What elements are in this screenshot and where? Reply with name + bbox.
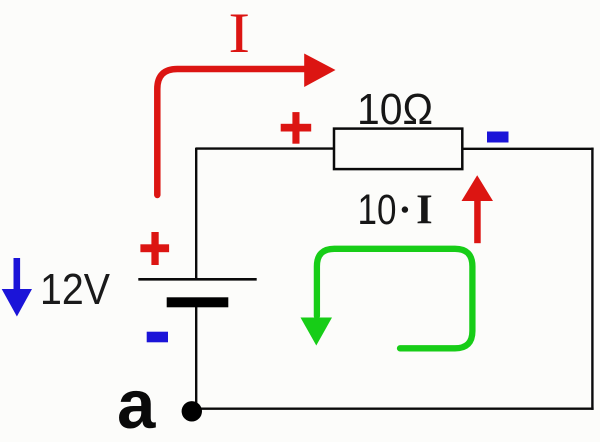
current arrow I (red, from battery over the top) xyxy=(157,54,335,196)
svg-text:10: 10 xyxy=(358,186,397,234)
svg-text:12V: 12V xyxy=(40,266,110,314)
multiplication dot in 10·I xyxy=(402,206,408,212)
battery + polarity mark (red plus) xyxy=(140,232,169,265)
svg-text:10Ω: 10Ω xyxy=(357,85,433,134)
resistor - polarity mark (blue minus) xyxy=(487,132,509,143)
resistor + polarity mark (red plus) xyxy=(281,112,312,144)
blue battery voltage direction arrow (down) xyxy=(2,258,32,317)
wire battery bottom lead xyxy=(195,307,197,411)
wire right side xyxy=(591,148,593,410)
svg-text:a: a xyxy=(117,366,156,442)
battery V1 negative plate (short thick) xyxy=(167,297,229,307)
wire bottom xyxy=(192,408,594,410)
resistor R1 body xyxy=(334,129,462,170)
wire top-left segment (battery + to resistor) xyxy=(196,147,335,149)
wire top-right segment (resistor to right corner) xyxy=(461,148,594,150)
battery - polarity mark (blue minus) xyxy=(147,332,168,343)
resistor voltage arrow (red, up) xyxy=(462,175,494,243)
node a junction dot xyxy=(182,401,202,421)
KVL loop arrowhead (green, down) xyxy=(301,318,333,346)
svg-text:I: I xyxy=(416,187,433,234)
wire battery top lead xyxy=(195,148,197,279)
battery V1 positive plate (long thin) xyxy=(138,278,256,281)
svg-text:I: I xyxy=(228,3,250,65)
KVL loop arrow (green, clockwise) xyxy=(317,249,473,348)
